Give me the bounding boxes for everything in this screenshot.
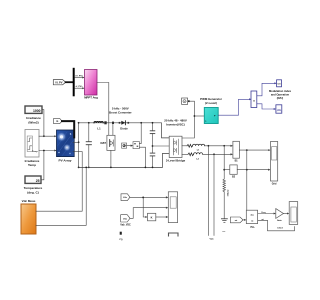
wire demux to MPPT in1 (75, 77, 85, 79)
diode D1 on rail (119, 121, 129, 125)
grid utility block (271, 142, 278, 182)
wire phase B with RL branch (182, 153, 233, 156)
wire sigbuilder out2 to PV Temp (39, 150, 57, 152)
3-level bridge U2 (169, 136, 182, 157)
wire B2 to grid block (237, 169, 270, 171)
scope2 block (289, 202, 298, 225)
svg-text:and Operation: and Operation (271, 93, 290, 97)
node gate rail junction (140, 122, 142, 124)
wire vm to gate driver (127, 145, 133, 147)
node load tap B2 (223, 169, 225, 171)
wire thick bus tag to PV m port (62, 121, 74, 137)
node PV minus rail junction (85, 167, 87, 169)
wire display2 tap (42, 151, 44, 180)
label Boost Converter (109, 106, 133, 114)
svg-text:Diode: Diode (120, 127, 128, 131)
label Inverter VSC (164, 118, 187, 126)
wire orange out2 to DC bottom rail (36, 167, 86, 225)
wire IGBT collector links (112, 123, 114, 136)
svg-text:0.5e3: 0.5e3 (277, 227, 283, 229)
label Temperature (deg C) (24, 186, 43, 194)
svg-text:Vab: Vab (123, 219, 128, 221)
svg-text:1000: 1000 (33, 109, 41, 113)
display Temperature value (25, 176, 41, 183)
wire PWM out to selector (218, 98, 251, 115)
wire display1 tap (43, 110, 44, 137)
wire filter to scope port3 (156, 216, 169, 218)
wire boost bottom rail (79, 153, 170, 167)
load branch RLC (223, 146, 226, 219)
node Vdc branch (142, 196, 144, 198)
svg-text:Vab_VSC: Vab_VSC (120, 224, 131, 227)
node B2 line tap (246, 169, 248, 171)
wire PV plus to vertical (73, 141, 79, 143)
wire demux to MPPT in2 (75, 87, 85, 89)
node DC link midpoint (152, 145, 154, 147)
svg-text:PV Array: PV Array (59, 158, 72, 162)
inductor L1 (94, 122, 103, 123)
annotation marker (120, 232, 122, 235)
demux bar (73, 69, 75, 96)
gain block (276, 209, 284, 219)
wire MPPT D output down to IGBT (97, 83, 109, 136)
svg-text:<V_PV>: <V_PV> (75, 74, 84, 77)
svg-text:IGBT: IGBT (100, 142, 106, 145)
svg-text:wt: wt (235, 219, 238, 222)
label PWM Generator (200, 97, 223, 105)
svg-text:(W/m2): (W/m2) (28, 120, 38, 124)
wire boost top rail (79, 123, 170, 138)
wire gain to scope2 (283, 213, 289, 215)
node DC link top junction (152, 122, 154, 124)
measurement block B2 (230, 165, 237, 174)
svg-text:v+-: v+- (223, 231, 226, 233)
svg-text:Temp: Temp (32, 151, 38, 153)
display modulation index (277, 80, 282, 87)
node rail bottom start (78, 167, 80, 169)
node C1 top junction (88, 122, 90, 124)
wire pulse junction to PWM (194, 115, 204, 117)
node PV plus junction (78, 141, 80, 143)
node rail top start (78, 122, 80, 124)
PWM generator block (cyan) (204, 108, 218, 124)
pulse source block (182, 98, 190, 104)
wire selector to display top (257, 82, 277, 96)
node Vabc tap (246, 149, 248, 151)
wire phase A with RL branch (182, 144, 233, 147)
wire orange out1 to PV minus node (36, 152, 82, 212)
wire DC pos vertical (78, 123, 80, 168)
wire PLL to gain (258, 213, 276, 215)
capacitor C2 DC link top (150, 123, 155, 146)
svg-text:PQ: PQ (119, 239, 122, 241)
wire Vab to scope port2 (130, 207, 168, 219)
wire thick bus tag to demux (66, 81, 73, 83)
wire IGBT emitter to bottom rail (110, 150, 112, 167)
node C1 bottom junction (88, 167, 90, 169)
signal builder Irradiance Temp (25, 130, 39, 158)
wire load tap to B2 (224, 169, 230, 171)
IGBT block (107, 135, 115, 150)
from tag wt (230, 217, 243, 223)
current measurement on rail (104, 121, 114, 124)
wire gate driver to top rail (139, 123, 141, 144)
svg-text:wt: wt (251, 219, 254, 222)
node DC link bottom junction (152, 167, 154, 169)
svg-text:Grid: Grid (272, 184, 277, 186)
wire sigbuilder out1 to PV Ir (39, 135, 57, 137)
node phase A tap2 (223, 145, 225, 147)
capacitor C3 DC link bottom (150, 146, 155, 167)
svg-text:Irradiance: Irradiance (26, 116, 41, 120)
label Irradiance Temp (25, 159, 40, 167)
svg-text:MPPT Avg: MPPT Avg (84, 96, 98, 100)
partial block lower (169, 233, 179, 236)
svg-text:(D/U): (D/U) (277, 96, 284, 100)
svg-text:Boost Converter: Boost Converter (109, 111, 133, 115)
svg-text:m: m (56, 120, 58, 123)
node phase A tap1 (208, 145, 210, 147)
label Irradiance (W/m2) (26, 116, 41, 124)
from tag VI_PV (53, 80, 65, 85)
wire selector to display bottom (257, 104, 276, 110)
wire Vdc to scope port1 (130, 196, 168, 198)
node display2 tap junction (43, 150, 45, 152)
node gate bottom junction (145, 167, 147, 169)
svg-text:3-Level Bridge: 3-Level Bridge (166, 159, 186, 163)
wire PV minus to vertical (73, 151, 82, 153)
subsystem measurement block (orange) (21, 204, 36, 234)
goto tag m (PV measurement bus) (54, 119, 63, 124)
from tag Vdc1 (121, 194, 130, 201)
svg-text:Vdc Meas: Vdc Meas (22, 199, 36, 203)
filter block (148, 213, 156, 221)
svg-text:VI_PV: VI_PV (55, 81, 63, 85)
svg-text:25: 25 (36, 179, 40, 183)
PLL block (246, 210, 266, 223)
ground load (221, 219, 227, 223)
display Irradiance value (25, 106, 42, 113)
svg-text:Inverter(VSC): Inverter(VSC) (166, 122, 185, 126)
svg-text:Modulation index: Modulation index (269, 89, 292, 93)
wire phase A measurement drop (207, 146, 209, 236)
wire Vabc down to PLL (246, 150, 248, 210)
capacitor C1 (86, 123, 91, 168)
node display1 tap junction (43, 135, 45, 137)
svg-text:Vab: Vab (210, 238, 215, 240)
svg-text:K: K (151, 216, 153, 220)
annotation Modulation index (269, 89, 292, 100)
wire DC midpoint to bridge N (153, 145, 170, 147)
svg-text:(2-Level): (2-Level) (205, 101, 217, 105)
node phase B tap (213, 153, 215, 155)
display operation point (276, 105, 282, 113)
voltage measurement source block (122, 143, 127, 148)
svg-text:PLL: PLL (250, 226, 255, 229)
from tag Vab (121, 215, 130, 222)
svg-text:10kvar: 10kvar (227, 189, 229, 196)
svg-text:L1: L1 (97, 127, 101, 131)
wire Vdc branch to filter (143, 197, 147, 218)
svg-text:Gain: Gain (277, 220, 283, 222)
wire PLL lower to scope2 (258, 220, 294, 231)
wire wt to PLL (243, 219, 246, 221)
wire bridge pulse line (182, 101, 194, 138)
svg-text:(deg. C): (deg. C) (27, 190, 39, 194)
svg-text:Temperature: Temperature (24, 186, 43, 190)
node IGBT emitter junction (110, 167, 112, 169)
gate driver block (133, 142, 139, 149)
wire gate driver to bottom rail (139, 147, 145, 167)
MPPT controller block (magenta) (85, 70, 98, 96)
measurement block B1 (233, 141, 240, 158)
scope block (168, 192, 177, 223)
wire B1 to grid block (239, 149, 270, 151)
selector block (251, 91, 257, 108)
node pulse junction (194, 115, 196, 117)
svg-text:<I_PV>: <I_PV> (75, 85, 83, 88)
svg-text:Temp: Temp (28, 163, 36, 167)
wire phase B measurement drop (213, 154, 215, 235)
PV array block (56, 130, 74, 157)
